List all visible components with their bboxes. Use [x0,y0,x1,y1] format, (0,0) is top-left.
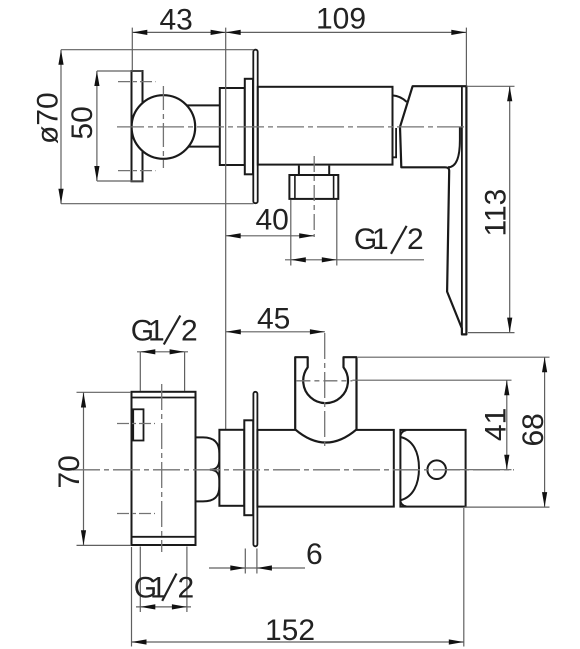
svg-text:6: 6 [306,538,323,571]
svg-text:50: 50 [66,106,99,139]
nut facet lines [294,175,296,199]
svg-text:1: 1 [372,223,389,256]
dia70 leader top [61,49,254,51]
G1/2 bottom-top dim line [137,351,188,353]
hub [220,88,245,165]
70 arrows [81,393,86,408]
45 arrows [226,329,241,334]
70 leaders [77,391,132,393]
svg-text:41: 41 [480,408,513,441]
handle skirt curve [448,128,460,168]
svg-text:43: 43 [160,4,193,37]
svg-text:70: 70 [53,455,86,488]
holder vertical centerline [324,333,326,449]
50 arrows [94,71,99,86]
50 dim line [96,71,98,181]
41 dim line [506,380,508,470]
152 dim line [132,641,464,643]
svg-text:2: 2 [181,315,198,348]
square valve body [132,392,196,545]
40 arrows [226,233,241,238]
small detail rect [133,409,143,440]
svg-text:ø70: ø70 [32,92,65,144]
svg-text:40: 40 [256,204,289,237]
ball vertical centerline [162,86,164,168]
113 dim line [509,86,511,332]
svg-text:109: 109 [316,3,366,36]
supply lobes [196,437,220,501]
6 arrows (outside pointing inward) [230,565,245,570]
G1/2 top ext lines [290,200,292,266]
dia70 arrows [58,50,63,65]
45 dim line [226,331,325,333]
dome arc [400,437,419,500]
dia70 leader bottom [61,203,254,205]
50 leader bottom [97,180,143,182]
G1/2 top arrows [291,257,306,262]
41 leaders [352,379,511,381]
ball joint [132,95,196,159]
68 dim line [544,357,546,507]
dome corner fillets [400,430,406,437]
body vertical centerline bottom view [161,384,163,552]
hub (bottom view) [219,430,244,506]
68 leaders [358,356,550,358]
body cylinder [258,87,393,165]
70 dim line [83,393,85,546]
152 arrows [132,639,147,644]
43 dim arrows [132,30,147,35]
wall flange plate (left) [132,71,143,181]
wall disc (bottom view) [253,392,257,547]
svg-text:152: 152 [265,614,315,647]
113 leader bottom [468,332,515,334]
G1/2 bottom-bottom arrows [140,604,155,609]
40 dim line [226,235,315,237]
shower holder bracket [295,357,356,442]
svg-text:113: 113 [480,189,513,237]
joint step lines [393,128,397,157]
end cap [400,430,465,507]
50 leader top [97,70,143,72]
outlet centerline [313,156,315,237]
dia70 dim line [60,50,62,204]
flange hole centerline mark lower [118,170,156,172]
109 dim arrows [226,30,241,35]
body top band line [132,397,196,399]
svg-text:2: 2 [407,223,424,256]
6 dim line [209,567,305,569]
svg-text:68: 68 [517,413,550,446]
svg-text:1: 1 [148,315,165,348]
flange hole centerline mark upper [118,81,156,83]
outlet neck [298,166,300,175]
extension line right (109) [465,28,467,86]
lever handle outline [400,86,466,334]
main axis centerline top view [117,126,466,128]
G1/2 bottom-bottom ext lines [139,547,141,613]
main cylinder (bottom view) [257,430,393,507]
G1/2 bottom-top ext lines [139,352,141,391]
41 arrows [504,380,509,395]
svg-text:1: 1 [150,572,167,605]
collar (bottom view) [244,420,253,515]
main axis centerline bottom view [73,469,514,471]
G1/2 top dim + shelf [285,259,424,261]
G1/2 bottom-bottom dim line [136,606,191,608]
body hole mark lower [117,513,155,515]
handle edge parallel line [461,86,463,328]
holder horizontal centerline [296,380,352,382]
152 ext lines [131,547,133,647]
dim line 43/109 [132,31,466,33]
neck between ball and hub [183,104,221,106]
svg-text:45: 45 [257,303,290,336]
body hole mark upper [117,423,155,425]
68 arrows [542,357,547,372]
collar plate [245,79,253,175]
body bottom band line [132,536,196,538]
extension line left (43) [131,28,133,71]
extension line mid (43/109/40/45) [225,28,227,430]
113 arrows [507,86,512,101]
6 ext lines [244,549,246,574]
cartridge cap arc [393,95,407,102]
G1/2 bottom-top arrows [140,349,155,354]
outlet nut [289,175,338,199]
screw hole [427,460,446,479]
svg-text:2: 2 [178,572,195,605]
113 leader top [466,85,514,87]
wall disc edge-on [253,50,257,204]
